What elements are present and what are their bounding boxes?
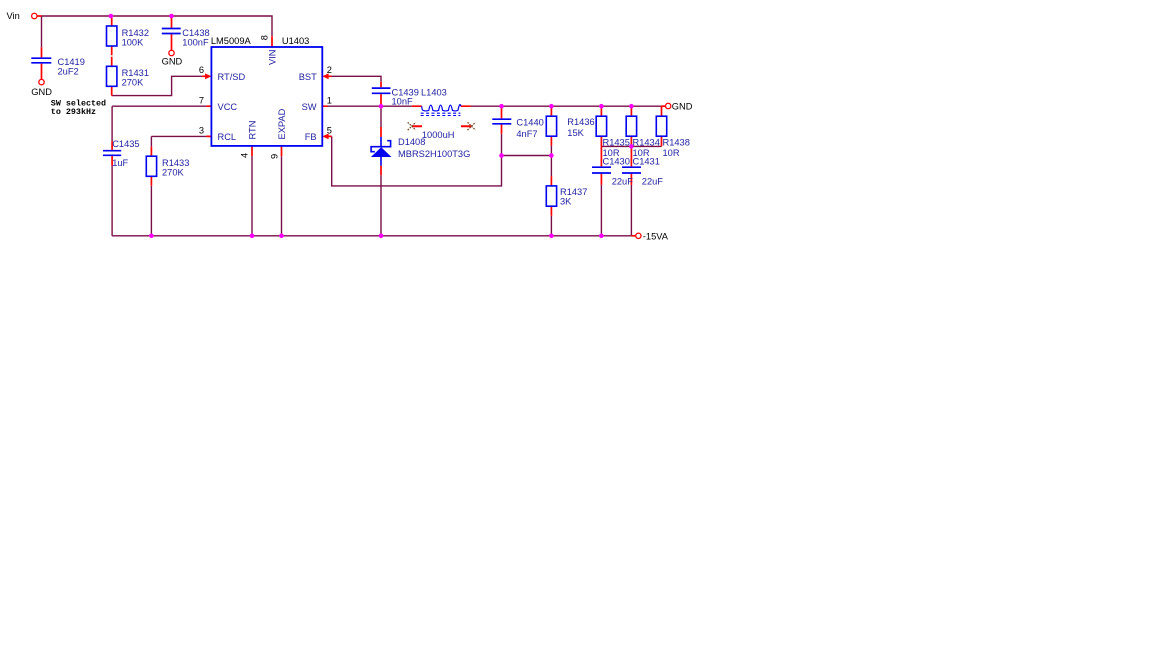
svg-text:C1438: C1438 (182, 28, 209, 38)
svg-text:8: 8 (260, 35, 270, 40)
svg-text:to 293kHz: to 293kHz (51, 107, 96, 117)
svg-text:RT/SD: RT/SD (218, 72, 246, 82)
svg-text:R1435: R1435 (603, 138, 630, 148)
svg-text:4nF7: 4nF7 (516, 129, 537, 139)
svg-text:100nF: 100nF (182, 38, 209, 48)
svg-text:GND: GND (31, 87, 52, 97)
svg-text:5: 5 (327, 126, 332, 136)
svg-text:270K: 270K (162, 168, 185, 178)
svg-text:C1430: C1430 (603, 157, 630, 167)
svg-text:Vin: Vin (7, 11, 20, 21)
svg-text:GND: GND (162, 57, 183, 67)
svg-text:C1419: C1419 (58, 57, 85, 67)
svg-text:6: 6 (199, 65, 204, 75)
svg-text:U1403: U1403 (282, 36, 309, 46)
svg-text:R1438: R1438 (663, 138, 690, 148)
svg-text:R1431: R1431 (122, 68, 149, 78)
svg-text:7: 7 (199, 96, 204, 106)
svg-text:1: 1 (327, 96, 332, 106)
svg-text:L1403: L1403 (421, 88, 447, 98)
svg-text:10R: 10R (663, 148, 680, 158)
svg-text:R1436: R1436 (567, 117, 594, 127)
svg-text:RCL: RCL (218, 132, 237, 142)
svg-text:RTN: RTN (248, 121, 258, 140)
svg-text:3K: 3K (560, 197, 572, 207)
svg-text:FB: FB (305, 132, 317, 142)
svg-text:15K: 15K (567, 128, 584, 138)
svg-text:4: 4 (240, 153, 250, 158)
svg-text:22uF: 22uF (612, 177, 634, 187)
svg-text:22uF: 22uF (642, 177, 664, 187)
svg-text:-15VA: -15VA (643, 232, 669, 242)
svg-text:2uF2: 2uF2 (58, 67, 79, 77)
svg-text:9: 9 (270, 154, 280, 159)
svg-text:R1433: R1433 (162, 158, 189, 168)
svg-text:1uF: 1uF (112, 158, 128, 168)
svg-text:C1435: C1435 (112, 139, 139, 149)
svg-text:R1434: R1434 (633, 138, 660, 148)
svg-text:EXPAD: EXPAD (277, 108, 287, 139)
svg-text:SW: SW (302, 102, 317, 112)
svg-text:VIN: VIN (268, 50, 278, 66)
svg-text:D1408: D1408 (398, 137, 425, 147)
svg-text:2: 2 (327, 65, 332, 75)
svg-text:R1437: R1437 (560, 187, 587, 197)
svg-text:GND: GND (672, 102, 693, 112)
svg-text:C1440: C1440 (516, 117, 543, 127)
svg-text:100K: 100K (122, 38, 145, 48)
svg-text:VCC: VCC (218, 102, 238, 112)
svg-text:10nF: 10nF (392, 96, 414, 106)
svg-text:1000uH: 1000uH (422, 130, 455, 140)
svg-text:LM5009A: LM5009A (211, 36, 252, 46)
svg-text:R1432: R1432 (122, 28, 149, 38)
svg-text:BST: BST (299, 72, 317, 82)
svg-text:3: 3 (199, 126, 204, 136)
svg-text:MBRS2H100T3G: MBRS2H100T3G (398, 149, 470, 159)
svg-text:C1431: C1431 (633, 157, 660, 167)
svg-text:270K: 270K (122, 78, 145, 88)
